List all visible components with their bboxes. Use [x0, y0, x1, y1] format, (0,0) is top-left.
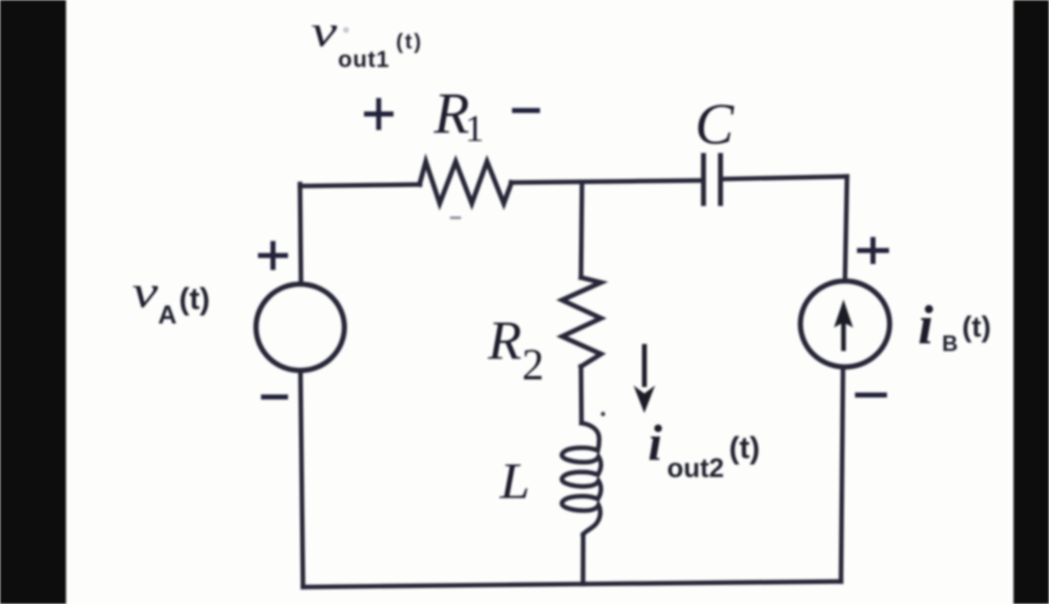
current arrow iout2 — [634, 344, 655, 413]
svg-text:(t): (t) — [729, 430, 760, 465]
wire: middle vertical upper — [581, 182, 582, 278]
svg-text:L: L — [499, 454, 530, 510]
svg-text:R: R — [433, 81, 469, 146]
capacitor C — [704, 156, 721, 204]
svg-text:i: i — [918, 295, 934, 356]
voltage source VA — [256, 284, 344, 370]
wire: right vertical upper — [845, 177, 847, 280]
arrow inside current source IB — [834, 300, 853, 352]
wire: C to top-right corner — [723, 177, 847, 180]
wire: R1 to capacitor C — [511, 181, 701, 183]
plus sign of vout1 (left of R1) — [364, 112, 394, 117]
svg-text:i: i — [648, 416, 662, 472]
svg-text:B: B — [942, 331, 958, 356]
stray ink dot near R2 bottom — [601, 412, 605, 416]
wire: top-left corner to R1 — [300, 185, 420, 187]
wire: left vertical lower — [301, 373, 304, 587]
wire: left vertical upper — [300, 184, 301, 282]
wire: L to bottom — [581, 535, 586, 585]
plus sign of VA — [258, 253, 288, 258]
svg-text:out2: out2 — [667, 453, 724, 483]
resistor R2 — [562, 278, 601, 367]
svg-text:v: v — [132, 267, 158, 317]
wire: R2 to inductor L — [579, 367, 584, 424]
svg-text:R: R — [487, 310, 522, 371]
minus sign of VA — [261, 395, 288, 400]
svg-text:A: A — [158, 300, 177, 330]
wire: right vertical lower — [841, 370, 843, 582]
minus sign of vout1 (right of R1) — [512, 108, 540, 113]
wire: bottom — [303, 582, 841, 588]
plus sign of IB — [857, 248, 889, 253]
inductor L — [562, 423, 601, 535]
svg-text:1: 1 — [465, 108, 484, 150]
svg-text:(t): (t) — [179, 281, 210, 316]
svg-text:C: C — [695, 92, 735, 157]
resistor R1 — [420, 162, 512, 204]
svg-text:(t): (t) — [396, 31, 423, 54]
svg-text:(t): (t) — [962, 312, 991, 344]
current source IB — [800, 281, 889, 367]
svg-text:v: v — [311, 7, 338, 56]
stray ink dash under R1 — [450, 217, 461, 220]
minus sign of IB — [855, 393, 887, 398]
svg-text:2: 2 — [522, 340, 544, 389]
svg-text:out1: out1 — [338, 46, 390, 72]
stray smudge near vout1 — [343, 27, 349, 33]
